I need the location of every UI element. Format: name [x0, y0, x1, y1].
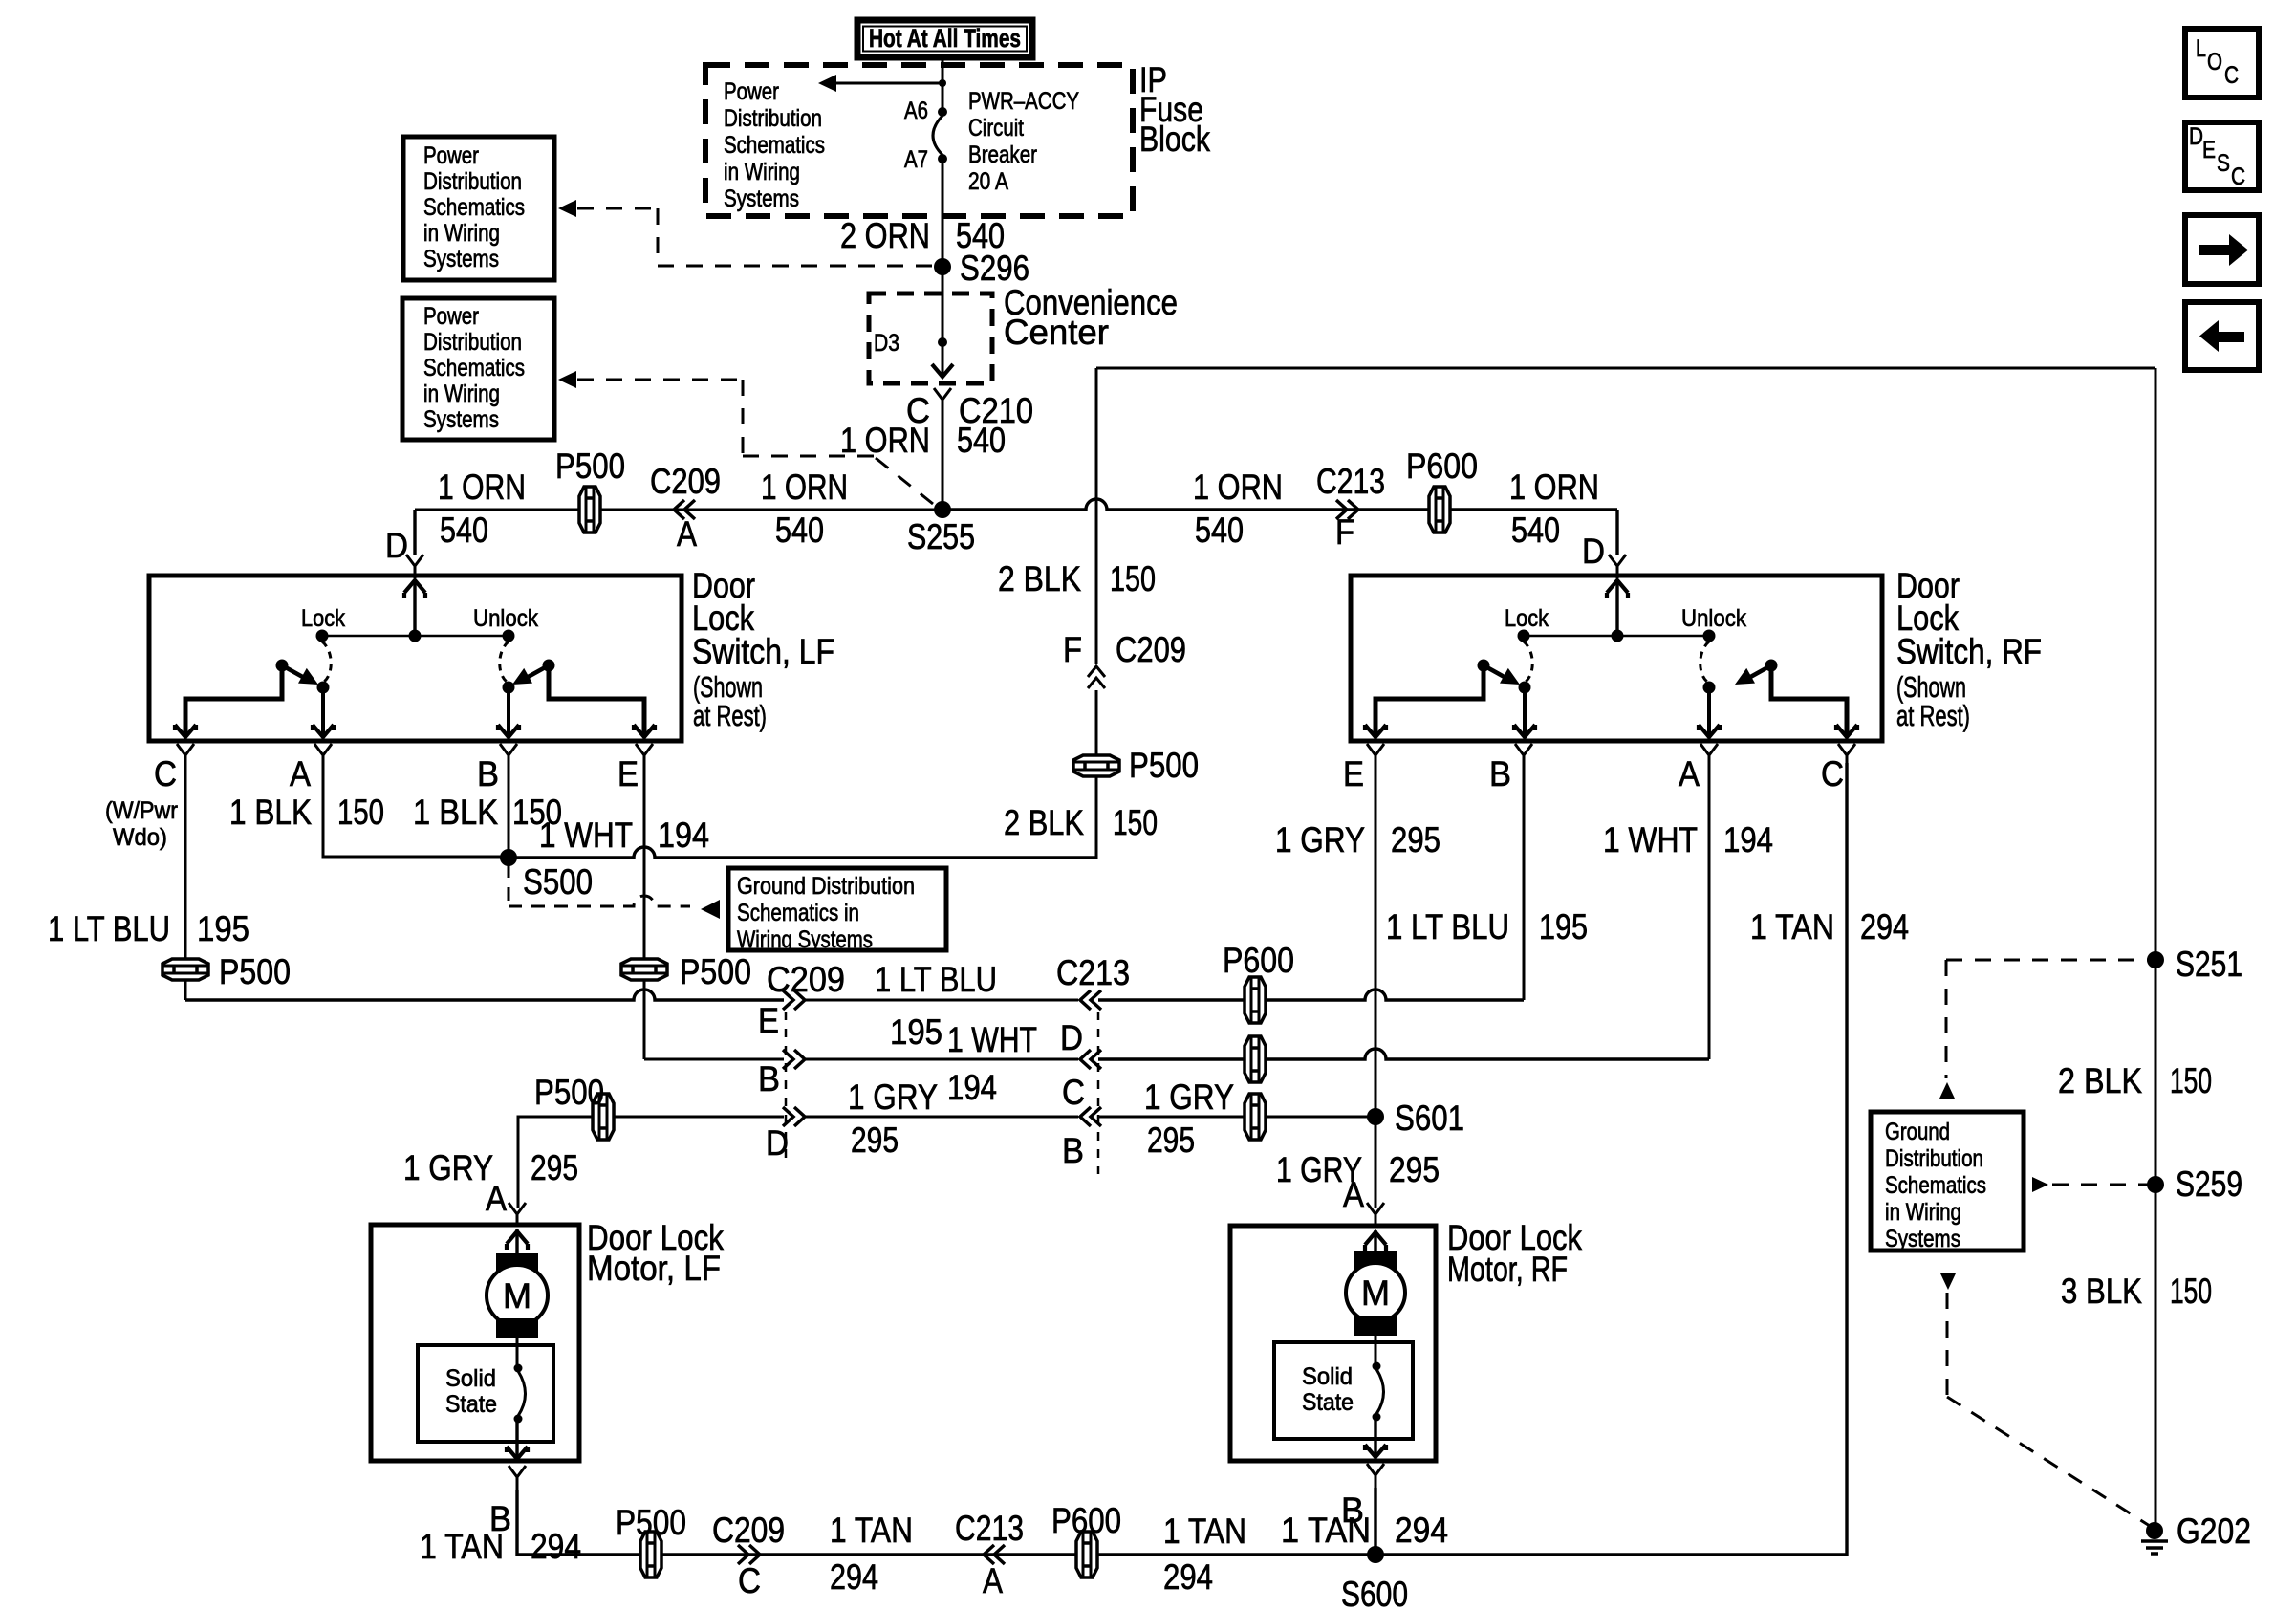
junction S600 [1367, 1546, 1384, 1563]
grommet P500 (left branch) [579, 487, 600, 533]
svg-text:Schematics: Schematics [423, 355, 525, 381]
junction S601 [1367, 1108, 1384, 1125]
svg-text:295: 295 [1147, 1120, 1195, 1160]
grommet P600 row3 [1245, 1094, 1266, 1140]
icon box DESC [2185, 122, 2259, 190]
dashed reference box to S259 [2032, 1177, 2048, 1192]
component box: Door Lock Switch LF [149, 576, 682, 741]
svg-text:1 LT BLU: 1 LT BLU [875, 960, 997, 999]
svg-text:P500: P500 [1129, 746, 1199, 785]
component box: Door Lock Motor RF [1230, 1226, 1436, 1461]
svg-text:A: A [1679, 754, 1700, 794]
svg-text:Power: Power [423, 142, 479, 169]
wire: row C209 B to C213 C [805, 1058, 1078, 1061]
svg-text:M: M [1361, 1273, 1390, 1313]
svg-text:Lock: Lock [1505, 605, 1549, 632]
svg-text:2 BLK: 2 BLK [2058, 1061, 2142, 1100]
svg-text:D: D [2189, 123, 2203, 150]
svg-text:150: 150 [337, 793, 384, 832]
svg-text:Schematics: Schematics [423, 194, 525, 221]
svg-text:D: D [766, 1123, 789, 1163]
svg-text:Distribution: Distribution [724, 105, 822, 132]
svg-text:S600: S600 [1341, 1575, 1408, 1610]
svg-text:Lock: Lock [301, 605, 345, 632]
svg-text:150: 150 [2170, 1272, 2212, 1311]
switch LF lock contact dashed arc [322, 642, 331, 682]
grommet P600 (bottom run) [1076, 1532, 1097, 1577]
svg-text:1 WHT: 1 WHT [1603, 820, 1698, 859]
wire: top bus over to right side [1096, 367, 2155, 370]
grommet P600 row2 [1245, 1036, 1266, 1082]
svg-text:1 GRY: 1 GRY [403, 1148, 493, 1187]
Convenience Center dashed outline [869, 294, 992, 383]
svg-text:in Wiring: in Wiring [724, 159, 800, 185]
switch RF unlock pivot and arm [1765, 660, 1778, 672]
svg-text:D: D [1582, 532, 1605, 571]
wire: motor LF to solid state [516, 1338, 519, 1368]
svg-text:Distribution: Distribution [423, 329, 522, 356]
reference box: Power Distribution Schematics in Wiring Systems (upper left) [403, 137, 554, 280]
svg-text:195: 195 [197, 909, 249, 948]
svg-text:195: 195 [1539, 907, 1588, 946]
svg-text:C: C [1062, 1073, 1085, 1112]
svg-text:2 BLK: 2 BLK [998, 559, 1081, 598]
reference box: Ground Distribution Schematics in Wiring Systems (middle) [728, 868, 946, 950]
switch LF: feed wire with up arrow [413, 579, 416, 636]
connector C209 pin C (bottom run) [738, 1545, 748, 1564]
connector at motor LF pin B [509, 1466, 526, 1490]
ground G202 [2146, 1522, 2163, 1539]
svg-text:S: S [2217, 150, 2230, 177]
svg-text:O: O [2207, 49, 2222, 76]
svg-text:1 TAN: 1 TAN [830, 1511, 913, 1550]
svg-text:Distribution: Distribution [1885, 1145, 1983, 1172]
wire: row E C209 to C213 [805, 999, 1078, 1002]
svg-text:S259: S259 [2176, 1164, 2242, 1204]
svg-text:C209: C209 [712, 1511, 785, 1550]
junction S500 [500, 849, 517, 866]
connector at switch RF pin D [1609, 555, 1626, 578]
svg-text:A7: A7 [904, 146, 928, 173]
svg-text:194: 194 [947, 1068, 997, 1107]
wire: hot feed into fuse block [942, 54, 944, 108]
svg-text:P500: P500 [616, 1503, 686, 1542]
wire: solid state to motor RF pin B [1374, 1420, 1376, 1457]
svg-text:1 TAN: 1 TAN [1281, 1511, 1371, 1550]
svg-text:540: 540 [1195, 511, 1244, 550]
svg-text:Power: Power [724, 78, 779, 105]
svg-text:1 GRY: 1 GRY [1275, 820, 1365, 859]
svg-text:Schematics in: Schematics in [737, 900, 859, 926]
IP Fuse Block dashed outline [705, 65, 1133, 216]
svg-text:E: E [1343, 754, 1364, 794]
svg-text:Circuit: Circuit [968, 115, 1024, 141]
svg-text:540: 540 [957, 421, 1006, 460]
solid state box RF [1274, 1342, 1413, 1439]
reference box: Power Distribution Schematics in Wiring Systems (lower left) [402, 298, 554, 440]
svg-text:A: A [677, 514, 697, 554]
svg-text:C213: C213 [1316, 462, 1385, 501]
svg-text:F: F [1335, 512, 1354, 552]
svg-text:1 ORN: 1 ORN [840, 421, 930, 460]
wire: row C209 D to C213 B [805, 1116, 1078, 1119]
motor RF feed arrow [1374, 1230, 1376, 1251]
connector at motor LF pin A [509, 1203, 526, 1227]
junction S296 [934, 258, 951, 275]
svg-text:1 TAN: 1 TAN [1163, 1512, 1246, 1551]
svg-text:P500: P500 [219, 952, 291, 991]
svg-text:B: B [1062, 1131, 1084, 1170]
wire: drop to switch LF pin D [413, 510, 416, 555]
switch RF lock contact dashed arc [1524, 642, 1532, 682]
svg-text:Switch, RF: Switch, RF [1896, 632, 2042, 671]
connector at switch LF pin D [406, 555, 423, 578]
reference box: Ground Distribution Schematics in Wiring Systems (right) [1871, 1112, 2024, 1251]
switch RF unlock contact to pin A [1703, 682, 1716, 694]
icon box previous arrow [2185, 302, 2259, 370]
svg-text:Wdo): Wdo) [113, 824, 167, 851]
junction S255 [934, 501, 951, 518]
svg-text:S255: S255 [907, 517, 975, 556]
connector C209 pin F (vertical) [1088, 666, 1105, 677]
svg-text:A: A [486, 1179, 507, 1218]
svg-text:150: 150 [1110, 559, 1156, 598]
svg-text:2 BLK: 2 BLK [1004, 803, 1084, 842]
connector C209 rows E B D [783, 990, 793, 1010]
switch LF unlock contact to pin B [503, 682, 515, 694]
arrow branch to power distribution [835, 82, 942, 85]
svg-text:P500: P500 [534, 1073, 604, 1112]
svg-text:Power: Power [423, 303, 479, 330]
svg-text:P500: P500 [555, 446, 625, 486]
svg-text:1 ORN: 1 ORN [438, 468, 526, 507]
icon box next arrow [2185, 215, 2259, 284]
wire: motor LF pin B down to bottom run [517, 1490, 1375, 1555]
svg-text:Solid: Solid [1302, 1363, 1353, 1390]
svg-text:A: A [290, 754, 311, 794]
svg-text:295: 295 [1391, 820, 1440, 859]
connector at motor RF pin B [1367, 1464, 1384, 1488]
svg-text:in Wiring: in Wiring [1885, 1199, 1961, 1226]
solid state switch RF [1373, 1362, 1381, 1371]
switch RF: crossbar [1524, 635, 1709, 638]
svg-text:540: 540 [775, 511, 824, 550]
circuit breaker PWR-ACCY 20 A (element) [933, 116, 942, 155]
svg-text:1 TAN: 1 TAN [1750, 907, 1834, 946]
svg-text:Unlock: Unlock [1681, 605, 1746, 632]
switch RF lock pole to pin E [1375, 665, 1484, 737]
svg-text:D: D [385, 526, 408, 565]
svg-text:C: C [154, 754, 177, 794]
svg-text:Motor, RF: Motor, RF [1447, 1250, 1568, 1289]
svg-text:F: F [1063, 630, 1082, 669]
component box: Door Lock Switch RF [1351, 576, 1882, 741]
connector C210 pin C [934, 388, 951, 412]
svg-text:Systems: Systems [724, 185, 799, 212]
wire: 2 BLK 150 from top bus down to C209 F [1095, 368, 1098, 664]
motor RF armature [1354, 1251, 1397, 1271]
solid state switch LF [514, 1364, 523, 1373]
svg-text:C209: C209 [767, 960, 845, 999]
dashed reference line S255 to power distribution box (lower) [558, 371, 576, 388]
svg-text:1 ORN: 1 ORN [1193, 468, 1283, 507]
svg-text:540: 540 [440, 511, 488, 550]
dashed reference box to ground G202 [1940, 1273, 1956, 1290]
svg-text:P600: P600 [1051, 1501, 1121, 1540]
switch RF lock contact to pin B [1519, 682, 1531, 694]
connector at motor RF pin A [1367, 1203, 1384, 1227]
svg-text:1 GRY: 1 GRY [1144, 1077, 1234, 1117]
grommet P500 (pin C wire) [162, 959, 208, 980]
svg-text:2 ORN: 2 ORN [840, 216, 930, 255]
grommet P500 row3 [593, 1094, 614, 1140]
switch RF unlock pole to pin C [1771, 665, 1847, 737]
switch RF: feed wire with up arrow [1615, 579, 1618, 636]
svg-text:1 WHT: 1 WHT [947, 1020, 1037, 1059]
svg-text:B: B [477, 754, 499, 794]
svg-text:G202: G202 [2177, 1512, 2251, 1551]
svg-text:1 LT BLU: 1 LT BLU [48, 909, 170, 948]
svg-text:20 A: 20 A [968, 168, 1008, 195]
svg-text:A: A [1343, 1175, 1364, 1214]
wire: pin C (W/Pwr Wdo) down and to C209 E [184, 763, 187, 1000]
wire: 2 BLK 150 to S500 [509, 847, 1096, 858]
svg-text:294: 294 [1163, 1557, 1213, 1597]
grommet P600 row1 [1245, 977, 1266, 1023]
switch RF lock pivot and arm [1478, 660, 1490, 672]
motor LF feed arrow [515, 1229, 518, 1253]
svg-text:S500: S500 [523, 862, 593, 902]
svg-text:C209: C209 [1116, 630, 1186, 669]
svg-text:1 BLK: 1 BLK [229, 793, 312, 832]
svg-text:C: C [2231, 163, 2245, 190]
svg-text:Schematics: Schematics [724, 132, 825, 159]
svg-text:L: L [2196, 35, 2206, 62]
power label box: Hot At All Times [857, 20, 1032, 57]
arrow out of convenience center [932, 364, 953, 377]
svg-text:1 LT BLU: 1 LT BLU [1386, 907, 1509, 946]
svg-text:C: C [2224, 62, 2239, 89]
wire: 1 ORN 540 right branch S255 to door lock switch RF pin D [942, 499, 1617, 510]
wire: 2 ORN 540 from breaker to convenience center [942, 163, 944, 375]
wire: 2 BLK 150 from C209 F to grommet [1095, 690, 1098, 859]
svg-text:D3: D3 [874, 330, 899, 357]
svg-text:Hot At All Times: Hot At All Times [869, 24, 1021, 53]
svg-text:195: 195 [890, 1012, 942, 1052]
svg-text:294: 294 [531, 1527, 581, 1566]
svg-text:B: B [1489, 754, 1511, 794]
wire: motor RF pin B down to S600 [1374, 1488, 1376, 1555]
wire: 1 ORN 540 left branch S255 to door lock switch LF pin D [415, 509, 942, 511]
svg-text:1 WHT: 1 WHT [539, 816, 633, 855]
wire: pin A to S500 [323, 763, 502, 857]
svg-text:(W/Pwr: (W/Pwr [105, 797, 178, 824]
grommet P600 (right branch) [1429, 487, 1450, 533]
svg-text:C: C [738, 1561, 761, 1600]
wire: right bus down to ground G202 [2155, 368, 2157, 1531]
svg-text:Distribution: Distribution [423, 168, 522, 195]
svg-text:in Wiring: in Wiring [423, 220, 500, 247]
connector C213 pin A (bottom run) [984, 1545, 994, 1564]
dashed reference S500 to ground distribution box [508, 864, 510, 906]
wire: 1 ORN 540 from C210 to S255 [942, 412, 944, 510]
switch LF: crossbar [322, 635, 509, 638]
svg-text:A: A [983, 1561, 1003, 1600]
svg-text:at Rest): at Rest) [1896, 699, 1970, 732]
svg-text:294: 294 [830, 1557, 878, 1597]
dashed reference S251 to ground distribution box [1946, 959, 2149, 962]
connector C213 pin F (right branch) [1336, 500, 1347, 519]
svg-text:1 ORN: 1 ORN [1509, 468, 1599, 507]
wire: C213 D to switch RF pin B (1 LT BLU 195) [1098, 990, 1524, 1000]
svg-text:Unlock: Unlock [473, 605, 538, 632]
svg-text:S601: S601 [1395, 1099, 1464, 1138]
svg-text:194: 194 [658, 816, 709, 855]
svg-text:Ground Distribution: Ground Distribution [737, 873, 915, 900]
switch LF lock pivot and arm [276, 660, 289, 672]
svg-text:E: E [758, 1001, 779, 1040]
svg-text:1 GRY: 1 GRY [848, 1077, 938, 1117]
svg-text:M: M [503, 1276, 531, 1316]
switch LF lock pole to pin C [185, 665, 282, 737]
svg-text:D: D [1060, 1018, 1083, 1057]
svg-text:S251: S251 [2176, 945, 2242, 984]
svg-text:E: E [2202, 137, 2216, 163]
svg-text:295: 295 [531, 1148, 578, 1187]
svg-text:E: E [617, 754, 639, 794]
icon box LOC [2185, 29, 2259, 98]
switch LF unlock pivot and arm [543, 660, 555, 672]
switch RF pin connectors [1367, 744, 1384, 768]
svg-text:294: 294 [1395, 1511, 1448, 1550]
wire: row B of C209 left part [644, 1058, 784, 1061]
svg-text:S296: S296 [960, 249, 1029, 288]
wire: motor RF to solid state [1375, 1336, 1377, 1366]
svg-text:Wiring Systems: Wiring Systems [737, 926, 873, 953]
svg-text:194: 194 [1723, 820, 1773, 859]
svg-text:540: 540 [1511, 511, 1560, 550]
svg-text:3 BLK: 3 BLK [2061, 1272, 2142, 1311]
svg-text:P600: P600 [1406, 446, 1478, 486]
wire: row E of C209 (1 LT BLU) [185, 990, 784, 1000]
dashed reference line S296 to power distribution box (upper) [558, 200, 576, 217]
svg-text:State: State [1302, 1389, 1354, 1416]
solid state box LF [418, 1345, 553, 1442]
svg-text:A6: A6 [904, 98, 928, 124]
junction S251 [2147, 951, 2164, 968]
svg-text:1 ORN: 1 ORN [761, 468, 848, 507]
component box: Door Lock Motor LF [371, 1225, 579, 1461]
svg-text:PWR–ACCY: PWR–ACCY [968, 88, 1079, 115]
svg-text:Center: Center [1004, 313, 1109, 352]
wire: pin E (1 WHT) down to row B of C209 [643, 763, 646, 1059]
grommet P500 (bottom run) [640, 1532, 661, 1577]
svg-text:P500: P500 [680, 952, 751, 991]
svg-text:C209: C209 [650, 462, 721, 501]
connector C213 rows D C B [1080, 990, 1091, 1010]
svg-text:295: 295 [1389, 1150, 1440, 1189]
svg-text:B: B [758, 1059, 780, 1099]
svg-text:Systems: Systems [423, 246, 499, 272]
grommet P500 (on 2 BLK drop) [1073, 755, 1119, 776]
svg-text:Schematics: Schematics [1885, 1172, 1986, 1199]
wire: drop to switch RF pin D [1615, 510, 1618, 555]
switch RF unlock contact dashed arc [1700, 642, 1709, 682]
svg-text:Systems: Systems [1885, 1226, 1960, 1252]
svg-text:150: 150 [2170, 1061, 2212, 1100]
svg-text:Breaker: Breaker [968, 141, 1037, 168]
svg-text:C213: C213 [1056, 953, 1130, 992]
junction S259 [2147, 1176, 2164, 1193]
svg-text:150: 150 [1113, 803, 1158, 842]
svg-text:Block: Block [1139, 120, 1210, 159]
switch LF unlock pole to pin E [549, 665, 644, 737]
svg-text:Motor, LF: Motor, LF [587, 1249, 721, 1288]
connector C209 pin A (left branch) [674, 500, 684, 519]
svg-text:in Wiring: in Wiring [423, 381, 500, 407]
svg-text:1 BLK: 1 BLK [413, 793, 498, 832]
svg-text:P600: P600 [1223, 941, 1294, 980]
wire: pin B to S500 [508, 763, 510, 858]
svg-text:C213: C213 [955, 1509, 1024, 1548]
grommet P500 (pin E wire) [621, 959, 667, 980]
svg-text:State: State [445, 1391, 497, 1418]
svg-text:295: 295 [851, 1120, 899, 1160]
wire: C209 D row to door lock motor LF pin A (1 GRY 295) [518, 1117, 784, 1208]
svg-text:C: C [1821, 754, 1844, 794]
switch LF pin connectors [177, 744, 194, 768]
svg-text:Ground: Ground [1885, 1119, 1950, 1145]
switch LF lock contact to pin A [317, 682, 330, 694]
wire: RF pin E down through S601 to motor RF pin A [1375, 763, 1377, 1208]
wire: C213 B to S601 (1 GRY 295) [1098, 1116, 1375, 1119]
svg-text:294: 294 [1860, 907, 1909, 946]
svg-text:1 TAN: 1 TAN [420, 1527, 504, 1566]
svg-text:Solid: Solid [445, 1365, 496, 1392]
wire: C213 C to switch RF pin A (1 WHT 194) [1098, 1049, 1709, 1059]
svg-text:Switch, LF: Switch, LF [692, 632, 834, 671]
switch LF unlock contact dashed arc [500, 642, 509, 682]
wire: bottom run to switch RF pin C (1 TAN 294) [1375, 763, 1847, 1555]
wire: solid state to motor LF pin B [515, 1422, 518, 1459]
svg-text:at Rest): at Rest) [693, 699, 767, 732]
motor LF armature [496, 1253, 538, 1273]
svg-text:Systems: Systems [423, 406, 499, 433]
